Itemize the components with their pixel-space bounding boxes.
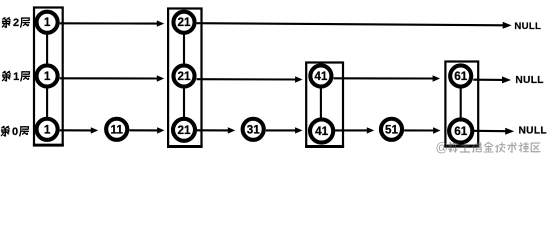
tower rect node-1	[33, 8, 64, 146]
svg-text:1: 1	[44, 70, 51, 83]
svg-text:21: 21	[177, 16, 191, 29]
svg-text:11: 11	[111, 123, 124, 136]
wire L0: 61 -> NULL	[473, 128, 514, 135]
node 41 level 0	[310, 119, 333, 142]
node 21 level 0	[173, 119, 195, 141]
wire tower-21 vertical link	[183, 22, 185, 129]
svg-text:61: 61	[454, 70, 468, 83]
wire L0: 51 -> 61	[404, 127, 440, 133]
wire L0: 41 -> 51	[334, 127, 375, 133]
node 41 level 1	[310, 65, 331, 86]
svg-text:41: 41	[314, 70, 328, 83]
node 61 level 0	[449, 119, 472, 142]
text NULL L0	[519, 126, 547, 137]
wire tower-1 vertical link	[46, 22, 48, 129]
svg-text:1: 1	[44, 123, 51, 136]
svg-text:41: 41	[315, 125, 329, 138]
svg-text:21: 21	[177, 70, 191, 83]
svg-text:NULL: NULL	[514, 21, 541, 32]
text level-0 label (di-N-ceng)	[1, 126, 28, 138]
node 1 level 0	[37, 119, 58, 140]
node 31 level 0	[243, 119, 264, 140]
node 21 level 2	[173, 12, 194, 33]
svg-text:NULL: NULL	[515, 75, 543, 86]
wire L1: 1 -> 21	[60, 75, 165, 81]
wire L0: 1 -> 11	[60, 127, 98, 133]
svg-text:31: 31	[247, 123, 261, 136]
svg-text:1: 1	[44, 16, 51, 29]
wire L1: 61 -> NULL	[473, 76, 511, 83]
wire L2: 1 -> 21	[60, 20, 165, 26]
svg-text:21: 21	[177, 124, 191, 137]
tower rect node-21	[167, 9, 203, 147]
wire L0: 31 -> 41	[266, 127, 303, 133]
node 1 level 2	[37, 12, 58, 33]
svg-text:61: 61	[454, 125, 468, 138]
svg-text:@: @	[436, 141, 449, 155]
node 61 level 1	[450, 65, 471, 86]
text level-1 label (di-N-ceng)	[3, 71, 30, 83]
tower rect node-61	[444, 62, 479, 147]
tower rect node-41	[305, 63, 344, 147]
node 11 level 0	[106, 119, 127, 140]
wire L0: 11 -> 21	[129, 127, 164, 133]
svg-text:51: 51	[385, 123, 399, 136]
svg-text:0: 0	[12, 126, 18, 138]
wire tower-41 vertical link	[320, 76, 322, 129]
wire L2: 21 -> NULL	[197, 22, 512, 29]
node 51 level 0	[381, 119, 402, 140]
text NULL L2	[514, 21, 541, 32]
svg-text:1: 1	[13, 71, 19, 83]
wire L0: 21 -> 31	[197, 127, 236, 133]
node 21 level 1	[173, 65, 194, 86]
wire tower-61 vertical link	[460, 76, 462, 129]
wire L1: 41 -> 61	[334, 75, 441, 81]
wire L1: 21 -> 41	[197, 76, 303, 82]
svg-text:NULL: NULL	[519, 126, 547, 137]
node 1 level 1	[37, 65, 58, 86]
svg-text:2: 2	[13, 17, 19, 29]
watermark @xitu juejin community	[436, 141, 540, 155]
text NULL L1	[515, 75, 543, 86]
text level-2 label (di-N-ceng)	[2, 17, 29, 29]
